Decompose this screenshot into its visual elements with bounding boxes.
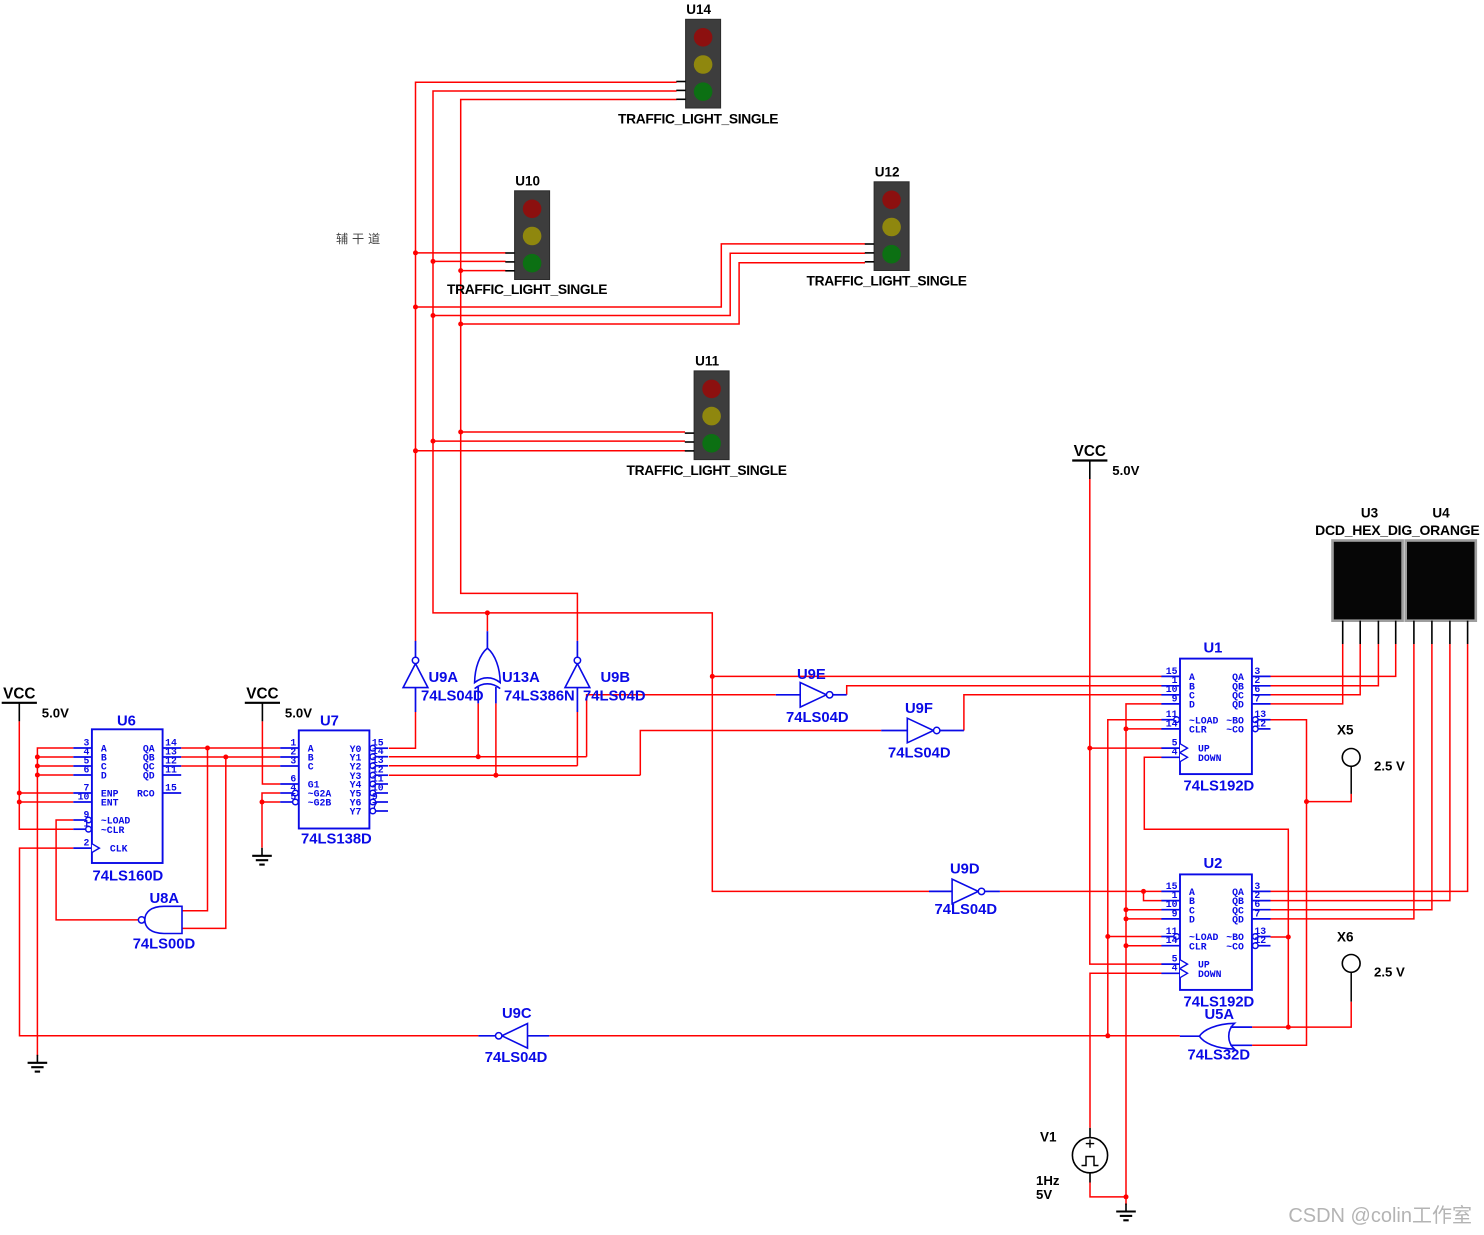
svg-text:D: D: [1189, 700, 1195, 711]
svg-text:U8A: U8A: [150, 891, 180, 907]
U3 pin stub x=1378.4: [1377, 621, 1379, 644]
svg-text:74LS160D: 74LS160D: [93, 869, 164, 885]
wire U9C output to U6 CLK: [20, 848, 479, 1036]
svg-text:~G2B: ~G2B: [308, 798, 332, 809]
U11 pin 1 stub: [685, 432, 694, 434]
or gate U5A (74LS32D, pointing left): [1199, 1023, 1234, 1049]
U1 74LS192D pin 10 C: [1161, 694, 1180, 696]
junction VCC ENT: [17, 800, 22, 805]
U1 74LS192D pin 14 CLR: [1161, 728, 1180, 730]
wire VCC branch to U6 ENT: [19, 801, 73, 803]
U7 74LS138D body: [299, 730, 370, 828]
U7 74LS138D pin 13 Y2: [370, 763, 376, 769]
svg-text:~CO: ~CO: [1226, 725, 1244, 736]
U11 pin 2 stub: [685, 441, 694, 443]
junction U12 pin1: [413, 305, 418, 310]
wire U11 pin1: [461, 431, 685, 433]
nand gate U8A (74LS00D, pointing left): [145, 906, 182, 933]
svg-text:2.5 V: 2.5 V: [1374, 759, 1405, 774]
svg-text:6: 6: [84, 764, 90, 775]
svg-text:74LS386N: 74LS386N: [504, 689, 575, 705]
junction U11 pin2: [431, 439, 436, 444]
U1 74LS192D pin 15 A: [1161, 675, 1180, 677]
U2 74LS192D pin 5 UP: [1161, 963, 1180, 965]
wire QA to U8A input 1: [182, 748, 208, 911]
junction reload net: [1105, 1033, 1110, 1038]
traffic light U14: [686, 19, 721, 108]
junction U11 pin1: [458, 430, 463, 435]
junction ~G2B: [260, 800, 265, 805]
svg-text:U3: U3: [1361, 506, 1379, 521]
U6 74LS160D pin 10 ENT: [73, 801, 92, 803]
svg-text:~CLR: ~CLR: [101, 825, 125, 836]
svg-text:DCD_HEX_DIG_ORANGE: DCD_HEX_DIG_ORANGE: [1315, 522, 1479, 538]
U6 74LS160D pin 12 QC: [163, 765, 182, 767]
svg-text:5.0V: 5.0V: [285, 705, 312, 720]
wire U2 QB to U4 pin: [1271, 644, 1450, 901]
U2 74LS192D body: [1180, 874, 1252, 990]
wire U5A input 1 to X6: [1252, 1002, 1351, 1027]
svg-text:74LS04D: 74LS04D: [888, 746, 951, 762]
U14 pin 1 stub: [676, 81, 685, 83]
junction U6 C: [35, 764, 40, 769]
svg-text:VCC: VCC: [1074, 443, 1106, 460]
svg-text:U9B: U9B: [601, 670, 631, 686]
svg-text:1Hz: 1Hz: [1036, 1173, 1060, 1188]
wire branch to U2 B: [1144, 891, 1162, 900]
U1 74LS192D pin 9 D: [1161, 703, 1180, 705]
U1 74LS192D pin 3 QA: [1252, 675, 1271, 677]
U7 74LS138D pin 9 Y6: [370, 799, 376, 805]
U6 74LS160D pin 5 C: [73, 765, 92, 767]
inverter U9C (74LS04D, pointing left): [502, 1024, 528, 1049]
junction gnd U1 CLR: [1124, 726, 1129, 731]
svg-text:Y7: Y7: [350, 807, 362, 818]
wire Y3 to U9F input: [640, 731, 881, 776]
wire U13A output: [486, 613, 488, 631]
wire U14 pin2 / net YELLOW to U9D input: [433, 91, 929, 891]
probe X6: [1342, 955, 1360, 973]
svg-text:X5: X5: [1337, 723, 1354, 738]
svg-text:TRAFFIC_LIGHT_SINGLE: TRAFFIC_LIGHT_SINGLE: [618, 111, 778, 126]
ground below V1: [1125, 1204, 1127, 1212]
U6 74LS160D body: [92, 729, 163, 863]
U7 74LS138D pin 1 A: [280, 747, 299, 749]
U6 74LS160D pin 1 ~CLR: [86, 826, 92, 832]
svg-text:74LS04D: 74LS04D: [786, 710, 849, 726]
wire ground net to U2 C: [1126, 909, 1162, 911]
junction VCC ENP: [17, 791, 22, 796]
wire U6 QB to U7 B: [181, 756, 280, 758]
U1 74LS192D pin 11 ~LOAD: [1174, 717, 1180, 723]
svg-text:VCC: VCC: [3, 685, 35, 702]
svg-text:CLK: CLK: [110, 844, 128, 855]
wire U6 B branch: [37, 756, 73, 758]
U3 pin stub x=1395.7: [1395, 621, 1397, 644]
U12 pin 2 stub: [865, 252, 874, 254]
U3 pin stub x=1360.2: [1359, 621, 1361, 644]
wire VCC to U6 ~CLR: [19, 721, 73, 829]
svg-text:12: 12: [1254, 935, 1266, 946]
U2 74LS192D pin 1 B: [1161, 900, 1180, 902]
U2 74LS192D pin 4 DOWN: [1161, 972, 1180, 974]
svg-text:5.0V: 5.0V: [1112, 463, 1139, 478]
U6 74LS160D pin 3 A: [73, 747, 92, 749]
wire U11 pin2: [433, 440, 685, 442]
ground bottom left: [36, 1055, 38, 1063]
U1 74LS192D pin 5 UP: [1161, 747, 1180, 749]
svg-text:74LS04D: 74LS04D: [935, 902, 998, 918]
junction U13A output: [485, 610, 490, 615]
U1 74LS192D pin 12 ~CO: [1253, 726, 1259, 732]
wire U12 pin3: [461, 263, 865, 324]
U10 pin 1 stub: [505, 252, 514, 254]
svg-text:DOWN: DOWN: [1198, 969, 1222, 980]
U6 74LS160D pin 11 QD: [163, 774, 182, 776]
wire U9A input to U7 Y0: [389, 712, 416, 748]
wire U5A output to U9C input: [549, 1035, 1180, 1037]
wire U2 QA to U4 pin: [1271, 644, 1468, 891]
svg-text:74LS00D: 74LS00D: [133, 937, 196, 953]
svg-text:CSDN @colin工作室: CSDN @colin工作室: [1288, 1204, 1472, 1227]
svg-text:4: 4: [1172, 963, 1178, 974]
svg-text:U9F: U9F: [905, 701, 933, 717]
junction gnd V1: [1124, 1194, 1129, 1199]
U12 pin 3 stub: [865, 261, 874, 263]
svg-text:U9C: U9C: [502, 1006, 532, 1022]
wire QB to U8A input 2: [182, 757, 226, 928]
U1 74LS192D pin 4 DOWN: [1161, 756, 1180, 758]
wire VCC branch to U1 UP: [1090, 747, 1162, 749]
wire U6 D branch: [37, 774, 73, 776]
U1 74LS192D body: [1180, 659, 1252, 775]
junction VCC U1 UP: [1087, 746, 1092, 751]
wire node to U1 A: [712, 675, 1162, 677]
junction QA: [205, 746, 210, 751]
svg-text:V1: V1: [1040, 1130, 1057, 1145]
U2 74LS192D pin 6 QC: [1252, 909, 1271, 911]
U6 74LS160D pin 2 CLK: [73, 847, 92, 849]
svg-text:74LS04D: 74LS04D: [421, 689, 484, 705]
wire U9F output to U1 C: [964, 695, 1162, 731]
svg-text:5V: 5V: [1036, 1187, 1052, 1202]
wire Y1 to U9E input: [587, 695, 776, 757]
wire U6 A-D tie to ground: [37, 748, 73, 1056]
svg-text:74LS32D: 74LS32D: [1188, 1048, 1251, 1064]
wire ground net to U2 CLR: [1126, 945, 1162, 947]
svg-text:D: D: [101, 771, 107, 782]
svg-text:VCC: VCC: [246, 685, 278, 702]
U10 pin 2 stub: [505, 261, 514, 263]
U3 pin stub x=1342.7: [1342, 621, 1344, 644]
U4 pin stub x=1413.9: [1413, 621, 1415, 644]
U6 74LS160D pin 7 ENP: [73, 792, 92, 794]
svg-text:74LS04D: 74LS04D: [583, 689, 646, 705]
VCC symbol right: [1072, 459, 1107, 461]
junction gnd U2 C: [1124, 907, 1129, 912]
wire V1 clock to U2 DOWN: [1090, 973, 1162, 1128]
svg-text:U13A: U13A: [502, 670, 540, 686]
svg-text:5.0V: 5.0V: [42, 705, 69, 720]
svg-text:U14: U14: [686, 2, 711, 17]
U2 74LS192D pin 7 QD: [1252, 918, 1271, 920]
wire U1 ~BO to U5A input 2: [1252, 720, 1306, 1046]
wire U1 D / ground net vertical: [1126, 704, 1162, 1205]
U2 74LS192D pin 10 C: [1161, 909, 1180, 911]
junction U10 pin1: [413, 250, 418, 255]
junction gnd U2 CLR: [1124, 943, 1129, 948]
svg-text:U2: U2: [1204, 856, 1223, 872]
junction U2 ~BO: [1286, 935, 1291, 940]
U1 74LS192D pin 7 QD: [1252, 703, 1271, 705]
junction U2 ~LOAD: [1105, 934, 1110, 939]
display U3 DCD_HEX_DIG_ORANGE: [1333, 541, 1403, 621]
wire U13A input B from Y3: [495, 703, 497, 775]
clock source V1: [1072, 1138, 1107, 1173]
U6 74LS160D pin 6 D: [73, 774, 92, 776]
junction U10 pin3: [458, 268, 463, 273]
svg-text:7: 7: [1254, 908, 1260, 919]
wire U13A input A from Y1: [477, 703, 479, 756]
wire U12 pin2: [433, 253, 865, 315]
VCC symbol for U6: [2, 702, 37, 704]
wire ground net to U2 D: [1126, 918, 1162, 920]
U2 74LS192D pin 11 ~LOAD: [1174, 934, 1180, 940]
wire U6 C branch: [37, 765, 73, 767]
svg-text:74LS138D: 74LS138D: [301, 832, 372, 848]
U1 74LS192D pin 13 ~BO: [1253, 717, 1259, 723]
svg-text:U9A: U9A: [429, 670, 459, 686]
svg-text:TRAFFIC_LIGHT_SINGLE: TRAFFIC_LIGHT_SINGLE: [627, 463, 787, 478]
junction Y1 XOR: [476, 754, 481, 759]
wire U1 QC to U3 pin: [1271, 644, 1361, 695]
wire U1 QA to U3 pin: [1271, 644, 1396, 676]
U11 pin 3 stub: [685, 450, 694, 452]
junction U1 A tap: [710, 674, 715, 679]
svg-text:4: 4: [1172, 747, 1178, 758]
wire U8A output to U6 ~LOAD: [56, 820, 138, 920]
U7 74LS138D pin 3 C: [280, 765, 299, 767]
U7 74LS138D pin 2 B: [280, 756, 299, 758]
U10 pin 3 stub: [505, 270, 514, 272]
inverter U9E (74LS04D, pointing right): [800, 683, 826, 708]
svg-text:U7: U7: [320, 714, 339, 730]
wire U6 QA to U7 A: [181, 747, 280, 749]
wire VCC net to U2 UP: [1090, 479, 1162, 964]
wire reload net to U2 ~LOAD: [1108, 936, 1162, 938]
U2 74LS192D pin 14 CLR: [1161, 945, 1180, 947]
wire U7 Y2 to U9B input: [389, 765, 578, 767]
svg-text:U9D: U9D: [950, 862, 980, 878]
U2 74LS192D pin 2 QB: [1252, 900, 1271, 902]
wire branch to X5: [1307, 794, 1352, 802]
junction X5: [1304, 799, 1309, 804]
wire U2 QC to U4 pin: [1271, 644, 1432, 910]
svg-text:X6: X6: [1337, 930, 1354, 945]
junction U12 pin3: [458, 322, 463, 327]
traffic light U10: [515, 191, 550, 280]
U4 pin stub x=1449.9: [1449, 621, 1451, 644]
wire V1 negative to ground net: [1090, 1183, 1126, 1197]
svg-text:74LS04D: 74LS04D: [485, 1050, 548, 1066]
U2 74LS192D pin 12 ~CO: [1253, 943, 1259, 949]
U1 74LS192D pin 6 QC: [1252, 694, 1271, 696]
U7 74LS138D pin 4 ~G2A: [293, 790, 299, 796]
wire VCC to U7 G1: [262, 721, 280, 784]
U12 pin 1 stub: [865, 243, 874, 245]
wire U12 pin1: [416, 244, 866, 307]
U2 74LS192D pin 9 D: [1161, 918, 1180, 920]
junction U6 D: [35, 773, 40, 778]
wire U1 QB to U3 pin: [1271, 644, 1379, 686]
inverter U9B (74LS04D, pointing up): [565, 664, 590, 688]
U1 74LS192D pin 2 QB: [1252, 685, 1271, 687]
svg-text:U4: U4: [1432, 506, 1450, 521]
wire U2 QD to U4 pin: [1271, 644, 1414, 919]
U14 pin 2 stub: [676, 89, 685, 91]
svg-text:U6: U6: [117, 714, 136, 730]
U4 pin stub x=1467.6: [1467, 621, 1469, 644]
svg-text:5: 5: [290, 791, 296, 802]
xor gate U13A (74LS386N, pointing up): [475, 648, 501, 683]
svg-text:C: C: [308, 762, 314, 773]
wire U1 ~LOAD to reload net: [1108, 720, 1162, 1036]
svg-text:D: D: [1189, 915, 1195, 926]
display U4 DCD_HEX_DIG_ORANGE: [1406, 541, 1476, 621]
inverter U9A (74LS04D, pointing up): [403, 664, 428, 688]
svg-text:DOWN: DOWN: [1198, 753, 1222, 764]
svg-text:RCO: RCO: [137, 789, 155, 800]
junction U12 pin2: [431, 313, 436, 318]
U6 74LS160D pin 13 QB: [163, 756, 182, 758]
U7 74LS138D pin 7 Y7: [370, 808, 376, 814]
svg-text:U12: U12: [875, 164, 900, 179]
wire U10 pin3: [461, 270, 506, 272]
svg-text:CLR: CLR: [1189, 941, 1207, 952]
U7 74LS138D pin 10 Y5: [370, 790, 376, 796]
svg-text:10: 10: [78, 791, 90, 802]
svg-text:9: 9: [1172, 908, 1178, 919]
svg-text:CLR: CLR: [1189, 725, 1207, 736]
svg-text:2: 2: [84, 838, 90, 849]
svg-text:12: 12: [1254, 718, 1266, 729]
junction Y3 XOR: [493, 773, 498, 778]
U14 pin 3 stub: [676, 98, 685, 100]
svg-text:15: 15: [165, 782, 177, 793]
U7 74LS138D pin 6 G1: [280, 783, 299, 785]
wire U1 DOWN loop to U2 ~BO net: [1144, 757, 1288, 1027]
U2 74LS192D pin 13 ~BO: [1253, 934, 1259, 940]
svg-text:U10: U10: [515, 173, 540, 188]
inverter U9F (74LS04D, pointing right): [907, 718, 933, 743]
wire U10 pin2: [433, 260, 506, 262]
wire VCC branch to U6 ENP: [19, 792, 73, 794]
traffic light U11: [694, 371, 729, 460]
wire U11 pin3: [416, 450, 686, 452]
junction gnd U2 D: [1124, 916, 1129, 921]
U6 74LS160D pin 15 RCO: [163, 792, 182, 794]
wire U9E output to U1 B: [847, 686, 1162, 695]
U6 74LS160D pin 4 B: [73, 756, 92, 758]
wire ground net to U1 CLR: [1126, 728, 1162, 730]
junction U2 A-B tie: [1141, 889, 1146, 894]
svg-text:9: 9: [1172, 693, 1178, 704]
U7 74LS138D pin 14 Y1: [370, 754, 376, 760]
U7 74LS138D pin 11 Y4: [370, 781, 376, 787]
svg-text:TRAFFIC_LIGHT_SINGLE: TRAFFIC_LIGHT_SINGLE: [807, 274, 967, 289]
wire U1 QD to U3 pin: [1271, 644, 1343, 704]
wire U7 ~G2A to ground: [262, 793, 280, 848]
svg-text:U1: U1: [1204, 641, 1223, 657]
svg-text:U5A: U5A: [1205, 1007, 1235, 1023]
U2 74LS192D pin 3 QA: [1252, 890, 1271, 892]
junction U11 pin3: [413, 448, 418, 453]
svg-text:TRAFFIC_LIGHT_SINGLE: TRAFFIC_LIGHT_SINGLE: [447, 282, 607, 297]
wire U2 ~BO: [1271, 936, 1289, 938]
wire U9D output to U2 A: [1000, 890, 1162, 892]
svg-text:辅 干 道: 辅 干 道: [336, 232, 380, 246]
junction U5A input1: [1286, 1025, 1291, 1030]
svg-text:U9E: U9E: [797, 667, 826, 683]
svg-text:11: 11: [165, 764, 177, 775]
junction U10 pin2: [431, 259, 436, 264]
ground below U7: [261, 848, 263, 856]
U7 74LS138D pin 12 Y3: [370, 772, 376, 778]
svg-text:2.5 V: 2.5 V: [1374, 965, 1405, 980]
svg-text:14: 14: [1166, 935, 1178, 946]
wire U14 pin1 to net RED vertical: [416, 82, 677, 641]
U4 pin stub x=1431.9: [1431, 621, 1433, 644]
svg-text:~CO: ~CO: [1226, 941, 1244, 952]
U7 74LS138D pin 5 ~G2B: [293, 799, 299, 805]
svg-text:QD: QD: [1232, 915, 1244, 926]
probe X5: [1342, 749, 1360, 767]
wire U7 Y1: [389, 756, 587, 758]
junction QB: [223, 755, 228, 760]
junction U6 B: [35, 755, 40, 760]
svg-text:14: 14: [1166, 718, 1178, 729]
svg-text:QD: QD: [143, 771, 155, 782]
svg-text:3: 3: [290, 755, 296, 766]
U6 74LS160D pin 9 ~LOAD: [86, 817, 92, 823]
svg-text:7: 7: [1254, 693, 1260, 704]
wire U10 pin1: [416, 252, 506, 254]
U1 74LS192D pin 1 B: [1161, 685, 1180, 687]
U2 74LS192D pin 15 A: [1161, 890, 1180, 892]
traffic light U12: [874, 182, 909, 271]
wire U9B input: [576, 712, 578, 766]
VCC symbol for U7: [245, 702, 280, 704]
wire U7 ~G2B branch: [262, 801, 280, 803]
inverter U9D (74LS04D, pointing right): [952, 879, 978, 904]
U7 74LS138D pin 15 Y0: [370, 745, 376, 751]
svg-text:74LS192D: 74LS192D: [1184, 779, 1255, 795]
wire U7 Y3: [389, 774, 641, 776]
svg-text:ENT: ENT: [101, 798, 119, 809]
svg-text:7: 7: [372, 800, 378, 811]
svg-text:QD: QD: [1232, 700, 1244, 711]
svg-text:U11: U11: [695, 353, 720, 368]
U6 74LS160D pin 14 QA: [163, 747, 182, 749]
wire U6 QC to U7 C: [181, 765, 280, 767]
wire U14 pin3 / net GREEN to U9B output: [461, 100, 677, 641]
svg-text:1: 1: [84, 819, 90, 830]
